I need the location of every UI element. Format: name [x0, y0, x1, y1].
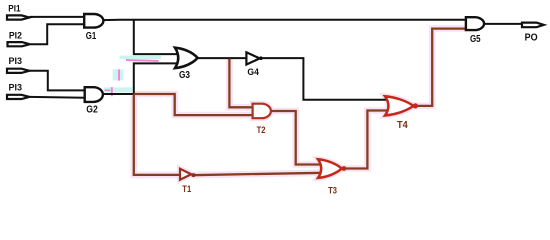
- wire G3 output to G4 input: [197, 57, 246, 59]
- AND gate G1: [84, 14, 103, 42]
- input port PI1: [7, 3, 29, 19]
- svg-text:PO: PO: [525, 31, 538, 43]
- highlight magenta segment B vertical: [118, 69, 120, 80]
- svg-text:T3: T3: [328, 185, 337, 196]
- wire PI1 to G1 input A: [29, 16, 84, 18]
- svg-text:T1: T1: [182, 183, 191, 194]
- wire PI3 to G2 input A: [29, 71, 85, 91]
- wire (red) tap on G3-G4 net to T2 input A: [229, 59, 252, 108]
- wire (red) junction down to T1 input: [134, 94, 180, 175]
- svg-text:G5: G5: [470, 34, 481, 45]
- AND gate G2: [85, 87, 103, 115]
- wire (red) junction to T2 input B: [134, 94, 252, 115]
- highlight magenta segment A on G3 lower input net: [126, 59, 159, 62]
- svg-text:T2: T2: [257, 125, 266, 136]
- highlight cyan segment C on G2 output net: [104, 87, 132, 92]
- svg-text:G4: G4: [247, 67, 259, 78]
- svg-text:PI3: PI3: [9, 82, 23, 92]
- svg-text:G3: G3: [179, 70, 190, 81]
- wire PI2 to G1 input B: [31, 24, 85, 44]
- svg-text:G1: G1: [86, 31, 97, 42]
- wire (red) T1 output to T3 input B: [192, 173, 323, 175]
- OR gate T3: [318, 159, 346, 196]
- highlight magenta tick C crossing G2 output: [111, 87, 113, 96]
- input port PI2: [8, 30, 30, 46]
- wire G2 output to junction: [102, 93, 134, 95]
- highlight magenta tick D: [105, 89, 110, 91]
- svg-text:PI1: PI1: [8, 3, 20, 13]
- input port PI3 (first): [7, 56, 29, 73]
- wire (red) T2 output to T3 input A: [272, 111, 323, 165]
- output port PO: [522, 23, 544, 44]
- wire branch from top net down to G3 input A: [134, 20, 179, 54]
- buffer G4: [246, 52, 262, 78]
- wire G5 output to PO: [484, 23, 521, 25]
- wire (red) T3 output to T4 input B: [343, 111, 390, 169]
- highlight cyan segment B vertical: [113, 69, 124, 80]
- svg-text:PI3: PI3: [9, 56, 23, 66]
- highlight cyan segment A on G3 lower input net: [120, 56, 162, 60]
- svg-text:PI2: PI2: [9, 30, 22, 40]
- OR gate G3: [175, 48, 198, 81]
- input port PI3 (second): [7, 82, 29, 99]
- svg-text:G2: G2: [86, 105, 98, 116]
- svg-text:T4: T4: [397, 120, 408, 131]
- wire (red) T4 output to G5 input B: [414, 29, 465, 106]
- pink halo under red wires: [134, 29, 465, 180]
- AND gate G5: [466, 17, 484, 45]
- wire junction up to G3 input B: [134, 63, 179, 94]
- AND gate T2: [253, 104, 271, 136]
- wire G4 output to T4 input A: [260, 58, 390, 100]
- OR gate T4: [385, 96, 418, 131]
- wire PI3 to G2 input B: [29, 96, 85, 99]
- wire G1 output to G5 input A (top net): [103, 19, 465, 21]
- buffer T1: [180, 169, 195, 194]
